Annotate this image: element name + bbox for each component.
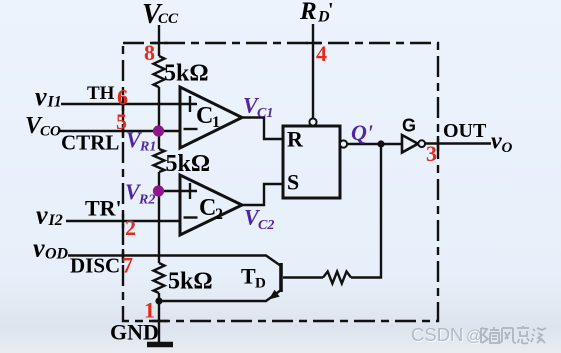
svg-text:R: R [299, 0, 317, 25]
pin 1 border tick [152, 320, 168, 322]
svg-text:v: v [491, 129, 502, 155]
comparator C2 triangle [180, 175, 242, 235]
wire chain R-mid to node VR2 [158, 172, 160, 191]
svg-text:TH: TH [87, 83, 115, 104]
svg-text:5kΩ: 5kΩ [168, 269, 213, 295]
pin 5 border tick [122, 124, 124, 138]
svg-text:C: C [199, 195, 216, 221]
C2 plus sign vertical [189, 183, 191, 199]
wire CTRL input line [59, 130, 181, 132]
wire OUT line [425, 142, 491, 144]
svg-text:CTRL: CTRL [61, 131, 119, 155]
junction GND-emitter dot [155, 297, 162, 304]
junction Q-bar dot [377, 140, 384, 147]
svg-text:6: 6 [117, 85, 128, 110]
wire Q-bar to inverter G [347, 143, 402, 145]
svg-text:T: T [241, 264, 256, 289]
svg-text:2: 2 [125, 215, 136, 240]
wire C2 output to S input [242, 184, 283, 205]
svg-text:S: S [287, 170, 299, 195]
svg-text:2: 2 [215, 206, 223, 223]
watermark CJK glyph xi [531, 328, 546, 343]
wire chain R-upper to node VR1 [158, 87, 160, 131]
svg-text:GND: GND [110, 320, 159, 345]
wire VR2 to C2 plus input [159, 190, 197, 192]
svg-text:DISC: DISC [70, 254, 120, 278]
node VR1 dot [153, 125, 164, 136]
resistor base zigzag [323, 272, 351, 284]
flip-flop RD bubble [309, 118, 316, 125]
wire TR input line [66, 220, 181, 222]
watermark CJK glyph wang [517, 326, 529, 344]
svg-text:C1: C1 [257, 106, 273, 121]
svg-text:D: D [255, 276, 266, 292]
svg-text:v: v [33, 234, 45, 263]
svg-text:C2: C2 [258, 218, 274, 233]
svg-text:v: v [35, 82, 47, 111]
C1 plus sign vertical [189, 96, 191, 112]
IC package dashed boundary [123, 43, 438, 321]
wire base resistor to transistor base [283, 276, 323, 278]
wire Q-bar junction down to base resistor [351, 144, 381, 278]
svg-text:5kΩ: 5kΩ [166, 151, 211, 177]
wire chain VR2 down to R-lower [158, 191, 160, 263]
svg-text:8: 8 [144, 40, 155, 65]
pin 8 border tick [152, 42, 168, 44]
svg-text:CC: CC [158, 11, 179, 27]
inverter G bubble [418, 140, 425, 147]
wire chain R-lower to GND [158, 293, 160, 343]
pin 3 border tick [437, 136, 439, 151]
node VR2 dot [153, 185, 164, 196]
svg-text:1: 1 [212, 114, 220, 131]
resistor R-lower 5k zigzag [154, 263, 165, 293]
pin 4 border tick [306, 42, 321, 44]
svg-text:@: @ [466, 328, 482, 345]
C2 minus sign dash [184, 216, 198, 218]
watermark CJK glyph sui [481, 327, 499, 343]
svg-text:R1: R1 [139, 140, 156, 155]
svg-text:CO: CO [40, 124, 61, 140]
flip-flop Q-bar bubble [340, 140, 347, 147]
svg-text:I1: I1 [47, 94, 62, 111]
transistor TD base bar [279, 263, 283, 292]
svg-text:O: O [502, 140, 513, 156]
svg-text:5kΩ: 5kΩ [164, 61, 209, 87]
svg-text:OUT: OUT [443, 120, 487, 142]
comparator C1 triangle [180, 87, 242, 148]
svg-text:OD: OD [45, 246, 69, 263]
pin 2 border tick [122, 214, 124, 228]
wire C1 output to R input [242, 118, 283, 140]
watermark CJK glyph feng [500, 328, 516, 343]
svg-text:v: v [36, 201, 48, 230]
C1 minus sign dash [184, 128, 198, 130]
inverter G triangle [402, 135, 418, 153]
svg-text:4: 4 [316, 41, 327, 66]
flip-flop box [283, 126, 340, 198]
transistor TD emitter arrow [270, 291, 279, 299]
svg-text:G: G [402, 116, 416, 136]
svg-text:I2: I2 [48, 212, 63, 229]
svg-text:R2: R2 [138, 193, 155, 208]
wire emitter return line [159, 290, 281, 301]
svg-text:C: C [196, 103, 213, 129]
svg-text:R: R [287, 127, 304, 152]
ground bar symbol [147, 342, 173, 348]
wire RD-bar input [312, 24, 314, 118]
svg-text:': ' [328, 0, 334, 21]
resistor R-upper 5k zigzag [154, 56, 165, 87]
wire VCC stem [158, 25, 160, 56]
svg-text:CSDN: CSDN [411, 324, 463, 345]
svg-text:TR': TR' [85, 196, 122, 221]
wire DISC line to collector [68, 256, 281, 267]
pin 6 border tick [122, 97, 124, 111]
svg-text:3: 3 [426, 141, 437, 166]
wire chain VR1 to R-mid [158, 131, 160, 149]
svg-text:Q': Q' [351, 120, 373, 145]
wire TH input line [61, 103, 197, 105]
pin 7 border tick [122, 249, 124, 263]
watermark CSDN @ [411, 324, 483, 346]
resistor R-mid 5k zigzag [154, 149, 165, 172]
svg-text:7: 7 [122, 253, 133, 278]
